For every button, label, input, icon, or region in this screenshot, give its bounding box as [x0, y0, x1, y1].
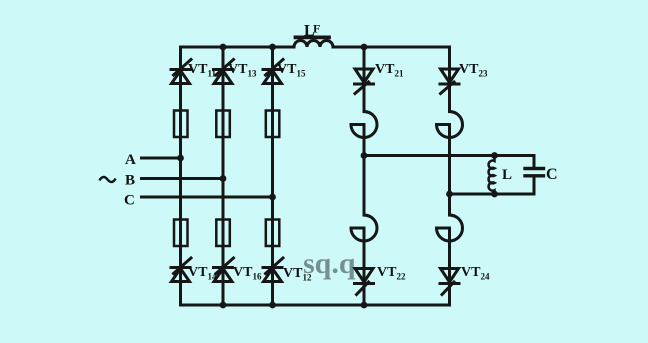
junction bottom bus / branch2 — [220, 302, 227, 309]
AC source tilde — [100, 177, 115, 182]
fuse FU3 — [266, 111, 280, 138]
thyristor VT12 — [263, 258, 283, 282]
thyristor VT16 — [214, 258, 234, 282]
svg-text:A: A — [125, 152, 136, 168]
wire input line B — [142, 177, 224, 180]
fuse FU1 — [174, 111, 188, 138]
fuse FU4 — [174, 220, 188, 247]
junction load top rail / VT21 branch — [361, 152, 368, 159]
wire phase branch 2 vertical — [222, 47, 225, 305]
junction bottom bus / VT22 branch — [361, 302, 368, 309]
wire input line C — [142, 196, 273, 199]
fuse FU5 — [216, 220, 230, 247]
wire bottom bus — [181, 304, 450, 307]
wire top bus left (branch1 top to LF) — [181, 46, 295, 49]
wire top bus right (LF to VT23 branch) — [333, 46, 450, 49]
thyristor VT11 — [171, 60, 191, 84]
thyristor VT21 — [355, 69, 374, 94]
junction top bus / branch3 — [269, 44, 276, 51]
wire load top rail — [364, 154, 534, 157]
thyristor VT13 — [214, 60, 234, 84]
wire input line A — [142, 157, 181, 160]
reactor loop on VT23 branch (top) — [437, 112, 463, 138]
junction top bus / branch2 — [220, 44, 227, 51]
wire inverter branch VT21/VT22 vertical segments — [363, 47, 366, 305]
fuse FU2 — [216, 111, 230, 138]
junction load top rail / inductor L — [491, 152, 498, 159]
reactor loop on VT23 branch (bottom) — [437, 215, 463, 241]
svg-text:C: C — [124, 193, 135, 209]
svg-text:L: L — [502, 167, 512, 183]
fuse FU6 — [266, 220, 280, 247]
thyristor VT15 — [263, 60, 283, 84]
svg-text:B: B — [125, 173, 135, 189]
junction line A / branch1 — [177, 155, 184, 162]
svg-text:F: F — [313, 22, 320, 36]
thyristor VT24 — [440, 269, 459, 295]
inductor L (load) — [489, 156, 495, 195]
junction load bottom rail / VT23 branch — [446, 191, 453, 198]
thyristor VT23 — [440, 69, 459, 94]
junction line B / branch2 — [220, 175, 227, 182]
wire phase branch 3 vertical — [271, 47, 274, 305]
reactor loop on VT21 branch (bottom) — [351, 215, 377, 241]
wire inverter branch VT23/VT24 vertical segments — [448, 47, 451, 305]
capacitor C (load) — [525, 156, 544, 195]
thyristor VT22 — [355, 269, 374, 295]
junction top bus / VT21 branch — [361, 44, 368, 51]
svg-text:C: C — [546, 166, 558, 183]
junction load bottom rail / inductor L — [491, 191, 498, 198]
wire load bottom rail — [450, 193, 535, 196]
reactor loop on VT21 branch (top) — [351, 112, 377, 138]
junction line C / branch3 — [269, 194, 276, 201]
wire phase branch 1 vertical — [179, 47, 182, 305]
junction bottom bus / branch3 — [269, 302, 276, 309]
thyristor VT14 — [171, 258, 191, 282]
inductor LF core bar — [296, 36, 330, 40]
inductor LF coil — [294, 41, 333, 47]
